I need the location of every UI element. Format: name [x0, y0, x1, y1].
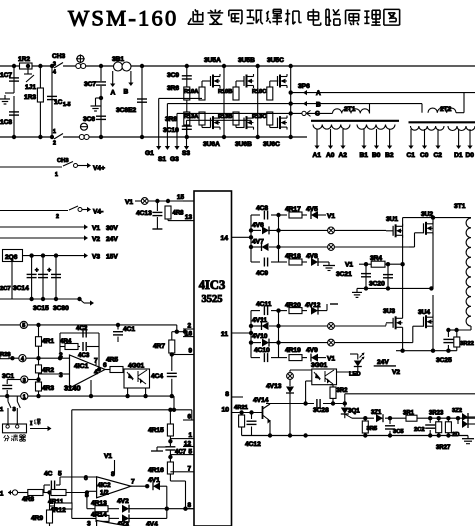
svg-text:+: + — [35, 268, 39, 274]
svg-text:4R8: 4R8 — [173, 211, 185, 217]
svg-text:3C80: 3C80 — [53, 305, 69, 312]
svg-text:4IC3: 4IC3 — [199, 278, 225, 292]
svg-text:4V2: 4V2 — [117, 498, 129, 505]
svg-text:V2: V2 — [92, 236, 100, 243]
svg-text:3P6: 3P6 — [298, 83, 310, 90]
svg-text:4R16: 4R16 — [148, 467, 164, 474]
svg-text:2: 2 — [56, 214, 59, 220]
svg-text:4V10: 4V10 — [252, 333, 268, 340]
svg-text:4G01: 4G01 — [128, 363, 144, 370]
svg-text:2: 2 — [187, 323, 191, 330]
svg-text:3B1: 3B1 — [112, 56, 124, 63]
svg-text:4: 4 — [53, 70, 56, 76]
svg-text:4V9: 4V9 — [306, 347, 318, 354]
svg-text:V4-: V4- — [93, 209, 103, 216]
svg-text:15: 15 — [177, 194, 185, 201]
svg-text:4V13: 4V13 — [266, 383, 282, 390]
svg-text:G1: G1 — [145, 150, 154, 157]
svg-text:3R2: 3R2 — [337, 388, 349, 394]
svg-text:8: 8 — [225, 391, 229, 398]
svg-text:3Z2: 3Z2 — [452, 408, 462, 414]
svg-text:A0: A0 — [326, 152, 335, 159]
svg-text:3: 3 — [23, 378, 26, 384]
svg-text:3U6C: 3U6C — [263, 141, 280, 148]
svg-text:1: 1 — [23, 394, 26, 400]
svg-text:V4+: V4+ — [93, 165, 105, 172]
svg-text:3C6: 3C6 — [83, 116, 95, 123]
svg-text:B2: B2 — [385, 152, 394, 159]
svg-text:14: 14 — [220, 235, 228, 242]
svg-text:3G01: 3G01 — [311, 362, 327, 369]
svg-text:4V4: 4V4 — [146, 521, 158, 526]
svg-text:5: 5 — [58, 471, 62, 478]
svg-text:24V: 24V — [377, 359, 389, 366]
svg-text:V2: V2 — [392, 369, 400, 376]
svg-text:V1: V1 — [125, 199, 133, 206]
svg-text:3U5B: 3U5B — [238, 57, 255, 64]
svg-text:4IC1: 4IC1 — [74, 363, 89, 370]
svg-text:3C14: 3C14 — [13, 285, 29, 292]
svg-text:3R23: 3R23 — [429, 411, 444, 417]
svg-text:4C2: 4C2 — [76, 325, 88, 332]
svg-text:1: 1 — [53, 129, 56, 135]
svg-text:3R22: 3R22 — [460, 341, 474, 347]
svg-text:3T1: 3T1 — [454, 203, 466, 210]
svg-text:V3: V3 — [92, 254, 100, 261]
svg-text:4R4: 4R4 — [60, 338, 72, 345]
svg-text:C2: C2 — [434, 152, 443, 159]
svg-text:2C7: 2C7 — [0, 286, 11, 292]
svg-text:V1: V1 — [345, 262, 353, 269]
svg-text:4V12: 4V12 — [305, 302, 321, 309]
svg-text:24V: 24V — [106, 236, 118, 243]
svg-text:4V6: 4V6 — [252, 222, 264, 229]
svg-text:4IC2: 4IC2 — [98, 482, 112, 489]
svg-text:3C21: 3C21 — [336, 271, 352, 278]
svg-text:R10C: R10C — [252, 89, 266, 95]
svg-text:13: 13 — [185, 214, 193, 221]
svg-text:4R13: 4R13 — [91, 500, 107, 507]
svg-text:R10B: R10B — [218, 89, 232, 95]
svg-text:3Q1: 3Q1 — [348, 408, 360, 415]
svg-text:S1: S1 — [158, 156, 166, 163]
svg-text:4C1: 4C1 — [123, 326, 135, 333]
svg-text:7: 7 — [187, 466, 191, 473]
svg-text:11: 11 — [221, 331, 228, 338]
svg-text:4R19: 4R19 — [285, 347, 301, 354]
svg-text:3C25: 3C25 — [436, 357, 452, 364]
svg-text:D0: D0 — [466, 152, 475, 159]
svg-text:V1: V1 — [92, 225, 100, 232]
svg-text:4R18: 4R18 — [285, 253, 301, 260]
svg-text:B1: B1 — [360, 152, 369, 159]
svg-text:7: 7 — [131, 479, 135, 486]
svg-text:1R2: 1R2 — [18, 56, 30, 63]
svg-text:3R5: 3R5 — [367, 426, 378, 432]
svg-text:G3: G3 — [170, 156, 179, 163]
svg-text:3: 3 — [87, 521, 91, 526]
svg-text:4C8: 4C8 — [256, 205, 268, 212]
svg-text:4C: 4C — [44, 471, 53, 478]
svg-text:4C4: 4C4 — [151, 373, 163, 380]
svg-text:1-5: 1-5 — [63, 102, 71, 108]
svg-text:2T2: 2T2 — [440, 106, 452, 113]
svg-text:1C: 1C — [54, 99, 63, 106]
svg-text:3U3: 3U3 — [383, 308, 395, 315]
svg-text:3U5C: 3U5C — [267, 57, 284, 64]
svg-text:B0: B0 — [372, 152, 381, 159]
svg-text:4C10: 4C10 — [254, 347, 270, 354]
svg-text:4C11: 4C11 — [256, 301, 272, 308]
svg-text:3C9: 3C9 — [167, 72, 179, 79]
svg-text:S3: S3 — [182, 150, 190, 157]
svg-text:1C8: 1C8 — [0, 119, 12, 126]
svg-text:4R20: 4R20 — [285, 302, 301, 309]
svg-text:1R3: 1R3 — [24, 94, 36, 101]
svg-text:A: A — [316, 90, 321, 97]
svg-text:2: 2 — [53, 141, 56, 147]
svg-text:5: 5 — [188, 449, 192, 456]
svg-text:10: 10 — [221, 407, 229, 414]
svg-text:6: 6 — [84, 475, 88, 482]
svg-text:4V5: 4V5 — [306, 206, 318, 213]
svg-text:2C2: 2C2 — [414, 427, 425, 433]
svg-text:B: B — [316, 102, 321, 109]
svg-text:3C8E2: 3C8E2 — [116, 107, 136, 114]
svg-text:4V1: 4V1 — [148, 477, 160, 484]
svg-text:C1: C1 — [407, 152, 416, 159]
svg-text:3U2: 3U2 — [421, 211, 433, 218]
svg-text:6: 6 — [187, 414, 191, 421]
svg-text:4C12: 4C12 — [245, 441, 261, 448]
svg-text:C0: C0 — [420, 152, 429, 159]
svg-text:C: C — [315, 111, 320, 118]
svg-text:4C3: 4C3 — [78, 352, 90, 359]
svg-text:3140: 3140 — [64, 384, 81, 393]
svg-text:4R2: 4R2 — [42, 367, 54, 374]
svg-text:A: A — [111, 90, 116, 97]
svg-text:4V8: 4V8 — [306, 253, 318, 260]
svg-text:4C9: 4C9 — [256, 270, 268, 277]
svg-text:R26: R26 — [0, 352, 11, 358]
svg-text:3R1: 3R1 — [403, 411, 415, 417]
svg-text:V1: V1 — [327, 213, 335, 220]
svg-text:3U6A: 3U6A — [203, 141, 220, 148]
svg-text:CH3: CH3 — [57, 158, 69, 164]
svg-text:4R1: 4R1 — [42, 338, 54, 345]
svg-text:1: 1 — [55, 172, 58, 178]
svg-text:3C1: 3C1 — [2, 373, 14, 380]
svg-text:3U5A: 3U5A — [204, 57, 221, 64]
svg-text:4R15: 4R15 — [148, 427, 164, 434]
svg-text:4V11: 4V11 — [252, 317, 267, 324]
svg-text:B: B — [124, 89, 129, 96]
svg-text:8: 8 — [187, 502, 191, 509]
svg-text:4V7: 4V7 — [252, 239, 264, 246]
svg-text:4: 4 — [21, 357, 24, 363]
svg-text:4R3: 4R3 — [42, 385, 54, 392]
svg-text:1J1: 1J1 — [25, 84, 36, 91]
svg-text:1/2: 1/2 — [100, 490, 109, 497]
svg-text:1: 1 — [188, 432, 192, 439]
svg-text:4V14: 4V14 — [253, 397, 269, 404]
svg-text:3R6: 3R6 — [167, 85, 179, 92]
svg-text:V1: V1 — [327, 356, 335, 363]
svg-text:R13A: R13A — [184, 114, 198, 120]
svg-text:3: 3 — [59, 372, 63, 379]
svg-text:4C13: 4C13 — [136, 210, 152, 217]
svg-text:4R17: 4R17 — [285, 206, 301, 213]
svg-text:3R27: 3R27 — [436, 445, 451, 451]
svg-text:3C20: 3C20 — [369, 281, 385, 288]
svg-text:4R7: 4R7 — [153, 343, 165, 350]
svg-text:WSM-160: WSM-160 — [68, 6, 178, 31]
svg-text:R13B: R13B — [218, 114, 232, 120]
svg-text:9: 9 — [188, 348, 192, 355]
svg-text:3C5: 3C5 — [393, 429, 404, 435]
svg-text:1C7: 1C7 — [0, 72, 12, 79]
svg-text:R13C: R13C — [252, 114, 266, 120]
svg-text:+: + — [48, 268, 52, 274]
svg-text:R10A: R10A — [184, 89, 198, 95]
svg-text:4R9: 4R9 — [31, 515, 43, 522]
svg-text:3U4: 3U4 — [418, 309, 430, 316]
svg-text:3R4: 3R4 — [370, 255, 382, 262]
svg-text:3525: 3525 — [202, 294, 223, 305]
svg-text:3U6B: 3U6B — [235, 141, 252, 148]
svg-text:5: 5 — [22, 323, 25, 329]
svg-text:4R5: 4R5 — [106, 357, 118, 364]
svg-text:4R21: 4R21 — [234, 405, 249, 411]
svg-text:3C15: 3C15 — [33, 305, 49, 312]
svg-text:4R14: 4R14 — [91, 512, 107, 519]
svg-text:2Q6: 2Q6 — [5, 254, 18, 261]
svg-text:3U1: 3U1 — [386, 216, 398, 223]
svg-text:12: 12 — [184, 441, 192, 448]
svg-text:2D: 2D — [452, 432, 459, 438]
svg-text:15V: 15V — [106, 254, 118, 261]
svg-text:D1: D1 — [454, 152, 463, 159]
svg-text:3Z1: 3Z1 — [371, 410, 382, 416]
svg-text:2T1: 2T1 — [344, 106, 356, 113]
svg-text:A2: A2 — [339, 152, 348, 159]
svg-text:3C7: 3C7 — [84, 81, 96, 88]
svg-text:3C28: 3C28 — [313, 407, 329, 414]
svg-text:30V: 30V — [106, 225, 118, 232]
svg-text:8: 8 — [111, 471, 115, 478]
svg-text:CH3: CH3 — [52, 53, 66, 60]
svg-text:4R8: 4R8 — [22, 496, 34, 503]
svg-text:V1: V1 — [104, 453, 112, 460]
svg-text:A1: A1 — [313, 152, 322, 159]
